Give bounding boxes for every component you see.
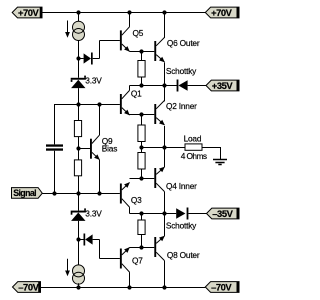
wire Q4 collector to -35 line bbox=[164, 192, 166, 214]
svg-text:+35V: +35V bbox=[212, 80, 234, 91]
node bus1 Q9 collector bbox=[97, 102, 101, 106]
wire Z2 to node bbox=[78, 221, 80, 240]
wire Q2 emitter to output bbox=[164, 126, 166, 147]
svg-text:3.3V: 3.3V bbox=[85, 76, 102, 86]
wire Q4 emitter to output bbox=[164, 147, 166, 167]
node -35 line Q4/Q8 bbox=[162, 211, 166, 215]
diode D1 bbox=[80, 53, 100, 65]
wire node to zener Z1 bbox=[78, 59, 80, 78]
node diode D2 junction bbox=[76, 237, 80, 241]
node output Q2/Q4 bbox=[162, 145, 166, 149]
wire current source I1 to node bbox=[78, 41, 80, 59]
svg-text:–70V: –70V bbox=[211, 281, 232, 292]
node bottom rail Q8 collector bbox=[162, 285, 166, 289]
wire D2 anode to Q7 base bbox=[100, 240, 120, 259]
node R3 bottom bbox=[139, 176, 143, 180]
svg-text:+70V: +70V bbox=[211, 7, 233, 18]
resistor R4 bbox=[138, 214, 145, 248]
wire Q9 emitter to bus2 bbox=[99, 160, 101, 194]
svg-text:–70V: –70V bbox=[18, 281, 39, 292]
node top rail junction Q5 collector bbox=[127, 10, 131, 14]
node +35 line R1 bbox=[139, 83, 143, 87]
resistor R6 bbox=[74, 149, 81, 194]
svg-text:Q3: Q3 bbox=[131, 195, 142, 205]
wire Q1 emitter line to Q2 base bbox=[130, 114, 155, 116]
transistor Q6 bbox=[154, 37, 166, 64]
node bottom rail current source bbox=[76, 285, 80, 289]
current source I2 bbox=[73, 265, 85, 284]
transistor Q7 bbox=[120, 245, 132, 272]
wire signal bus bbox=[42, 193, 120, 195]
wire upper bias bus bbox=[54, 104, 120, 144]
wire D1 cathode to Q5 base bbox=[100, 41, 120, 59]
svg-text:Q1: Q1 bbox=[131, 89, 142, 99]
current source I1 bbox=[73, 21, 85, 40]
wire load to ground bbox=[202, 147, 221, 160]
power flag -70V (left) bbox=[13, 281, 41, 292]
wire Q3 emitter line to Q4 base bbox=[130, 178, 155, 180]
wire Q8 emitter to -35 line bbox=[164, 214, 166, 237]
schottky diode D4 bbox=[176, 208, 207, 220]
svg-text:Q6 Outer: Q6 Outer bbox=[167, 38, 200, 48]
current source I2 arrow bbox=[65, 259, 70, 276]
capacitor C1 bbox=[46, 144, 63, 150]
node bus2 bias rail bbox=[76, 191, 80, 195]
zener Z2 3.3V bbox=[71, 208, 86, 221]
node bus2 Q9 emitter bbox=[97, 191, 101, 195]
wire rail to current source I1 bbox=[78, 12, 80, 21]
svg-text:Q7: Q7 bbox=[132, 255, 143, 265]
node Q9 base junction bbox=[76, 146, 80, 150]
wire Q5 emitter line to Q6 base bbox=[130, 51, 155, 53]
resistor R3 bbox=[138, 147, 145, 178]
load resistor bbox=[185, 144, 202, 150]
svg-text:Signal: Signal bbox=[13, 188, 36, 198]
transistor Q8 bbox=[154, 234, 166, 261]
power flag +70V (left) bbox=[12, 7, 42, 18]
svg-text:Q5: Q5 bbox=[133, 28, 144, 38]
wire bus1 to R5 bbox=[78, 104, 80, 121]
node top rail junction at current source bbox=[76, 10, 80, 14]
node bus2 capacitor bbox=[52, 191, 56, 195]
svg-text:Load: Load bbox=[184, 134, 202, 144]
svg-text:Q2 Inner: Q2 Inner bbox=[166, 101, 197, 111]
diode D2 bbox=[80, 234, 100, 246]
wire R5 to node bbox=[78, 137, 80, 149]
transistor Q2 bbox=[154, 100, 166, 127]
transistor Q4 bbox=[154, 165, 166, 192]
zener Z1 3.3V bbox=[71, 76, 86, 89]
wire bus2 to Z2 bbox=[78, 194, 80, 211]
power flag -70V (right) bbox=[205, 281, 239, 292]
node output R2/R3 bbox=[139, 145, 143, 149]
wire -35V line bbox=[130, 207, 177, 213]
svg-text:3.3V: 3.3V bbox=[85, 209, 102, 219]
node R2 top bbox=[139, 112, 143, 116]
wire Q5 collector to rail bbox=[129, 12, 131, 27]
svg-text:Bias: Bias bbox=[102, 143, 117, 153]
wire Q6 emitter to +35 line bbox=[164, 63, 166, 86]
wire output line bbox=[142, 147, 186, 149]
wire +35V line bbox=[130, 86, 178, 91]
power flag -35V bbox=[207, 208, 240, 219]
svg-text:Q8 Outer: Q8 Outer bbox=[167, 250, 200, 260]
svg-text:Schottky: Schottky bbox=[166, 66, 197, 76]
power flag +70V (right) bbox=[205, 7, 239, 18]
svg-text:+70V: +70V bbox=[18, 7, 40, 18]
signal flag bbox=[12, 188, 43, 199]
node top rail junction Q6 collector bbox=[162, 10, 166, 14]
wire Q7 emitter line to Q8 base bbox=[130, 247, 155, 249]
wire Q7 collector to rail bbox=[129, 272, 131, 287]
node bottom rail Q7 collector bbox=[127, 285, 131, 289]
node bus1 bias rail bbox=[76, 102, 80, 106]
transistor Q5 bbox=[120, 27, 132, 54]
wire Q8 collector to rail bbox=[164, 261, 166, 287]
node diode D1 junction bbox=[76, 56, 80, 60]
ground bbox=[213, 160, 227, 165]
wire node to current source I2 bbox=[78, 240, 80, 265]
svg-text:Schottky: Schottky bbox=[166, 221, 197, 231]
svg-text:–35V: –35V bbox=[212, 208, 233, 219]
wire Q6 collector to rail bbox=[164, 12, 166, 38]
transistor Q3 bbox=[120, 180, 132, 207]
wire Z1 to bus bbox=[78, 88, 80, 104]
wire Q9 base bbox=[80, 148, 90, 150]
node -35 line R4 bbox=[139, 211, 143, 215]
wire current source I2 to rail bbox=[78, 283, 80, 287]
schottky diode D3 bbox=[177, 80, 206, 92]
node +35 line Q6/Q2 bbox=[162, 83, 166, 87]
wire top rail bbox=[42, 12, 205, 14]
wire bottom rail bbox=[41, 287, 206, 289]
svg-text:Q4 Inner: Q4 Inner bbox=[166, 181, 197, 191]
svg-text:4 Ohms: 4 Ohms bbox=[181, 151, 207, 161]
transistor Q9 bbox=[90, 135, 102, 162]
wire Q9 collector to bus1 bbox=[99, 104, 101, 135]
node R4 bottom bbox=[139, 245, 143, 249]
resistor R1 bbox=[138, 51, 145, 86]
current source I1 arrow bbox=[65, 21, 70, 38]
wire Q2 collector to +35 line bbox=[164, 86, 166, 102]
wire C1 to signal bus bbox=[54, 151, 56, 194]
power flag +35V bbox=[206, 80, 239, 91]
resistor R5 bbox=[74, 121, 81, 137]
transistor Q1 bbox=[120, 90, 132, 117]
resistor R2 bbox=[138, 114, 145, 147]
node R1 top bbox=[139, 49, 143, 53]
